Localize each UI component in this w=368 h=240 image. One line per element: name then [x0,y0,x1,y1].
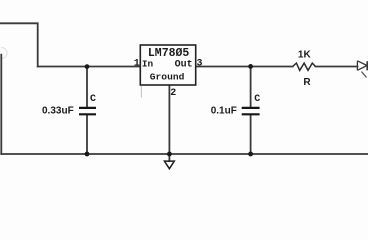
LED D1 (clipped at right edge) [357,61,367,78]
LED arrow stroke [362,72,367,78]
wire pin3 output [196,66,293,68]
wire input top [0,23,38,66]
wire ground bus [1,153,368,155]
svg-text:Out: Out [175,59,193,70]
ghost line under box [140,86,142,98]
node junction C2 at ground bus [248,152,253,157]
svg-text:Ground: Ground [150,71,185,82]
capacitor C2 plates (0.1uF) [242,108,260,114]
node junction at C1 [85,64,90,69]
svg-text:2: 2 [170,88,176,99]
wire pin1 horizontal [38,66,141,68]
svg-text:0.1uF: 0.1uF [211,106,237,117]
svg-text:0.33uF: 0.33uF [42,106,74,117]
svg-text:1: 1 [134,59,140,70]
ground symbol [164,161,174,169]
wire capacitor C1 bottom lead [86,115,88,154]
wire capacitor C2 bottom lead [250,115,252,154]
wire resistor to diode [316,66,358,68]
capacitor C1 plates (0.33uF) [79,108,96,114]
node junction at C2 [248,64,253,69]
LED cathode bar [366,61,368,70]
resistor R zigzag [293,63,316,70]
wire capacitor C1 top lead [86,67,88,108]
node junction at ground [167,152,172,157]
svg-text:3: 3 [197,59,203,70]
wire capacitor C2 top lead [250,67,252,108]
svg-text:LM78Ø5: LM78Ø5 [148,47,190,60]
svg-text:1K: 1K [298,49,312,60]
svg-text:C: C [254,94,260,105]
node junction C1 at ground bus [85,152,90,157]
ghost arc at input [2,48,8,59]
svg-text:R: R [303,77,311,88]
svg-text:C: C [90,94,96,105]
wire left vertical [0,55,2,154]
wire pin2 lead [168,85,170,161]
svg-text:In: In [142,58,154,69]
regulator U1 LM7805 box [140,45,195,85]
